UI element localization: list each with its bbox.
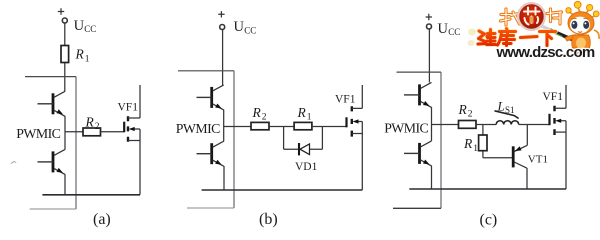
svg-text:2: 2 [262,113,267,123]
svg-text:CC: CC [84,24,96,34]
svg-text:R: R [252,105,262,120]
svg-text:L: L [497,99,505,114]
svg-text:2: 2 [468,110,473,120]
svg-text:PWMIC: PWMIC [176,121,220,136]
svg-text:CC: CC [244,26,256,36]
svg-text:1: 1 [473,144,478,154]
svg-text:R: R [297,105,307,120]
svg-text:www.dzsc.com: www.dzsc.com [496,44,595,61]
svg-text:(a): (a) [93,211,111,228]
svg-text:VF1: VF1 [118,101,139,113]
svg-text:R: R [458,102,468,117]
svg-text:U: U [234,19,245,35]
svg-text:VD1: VD1 [295,161,318,173]
svg-text:R: R [85,114,95,129]
svg-text:1: 1 [85,54,90,64]
svg-text:PWMIC: PWMIC [16,126,60,141]
svg-text:VT1: VT1 [528,154,548,166]
svg-text:(c): (c) [480,211,498,228]
svg-text:CC: CC [448,27,460,37]
svg-text:U: U [74,18,85,34]
svg-text:R: R [463,136,473,151]
svg-text:2: 2 [95,122,100,132]
svg-text:VF1: VF1 [543,91,564,103]
svg-text:VF1: VF1 [335,94,356,106]
svg-text:U: U [438,21,449,37]
svg-text:R: R [75,47,85,62]
svg-text:PWMIC: PWMIC [384,121,428,136]
svg-text:1: 1 [307,113,312,123]
svg-text:(b): (b) [259,211,278,228]
svg-text:S1: S1 [505,105,515,115]
